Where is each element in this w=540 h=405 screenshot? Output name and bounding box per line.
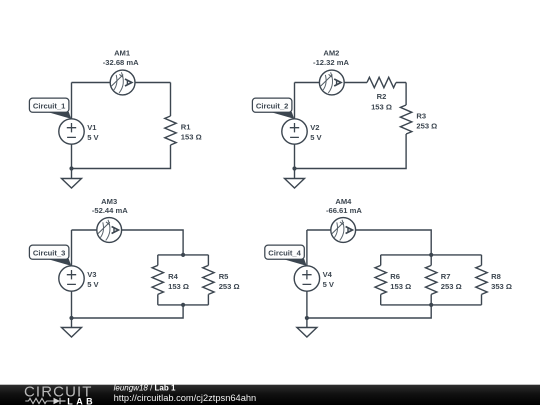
svg-text:253 Ω: 253 Ω: [219, 282, 240, 291]
svg-text:-66.61 mA: -66.61 mA: [326, 206, 362, 215]
svg-text:R6: R6: [390, 272, 400, 281]
svg-text:R1: R1: [181, 122, 191, 131]
wire circuit1 loop: [72, 83, 171, 169]
svg-text:R5: R5: [219, 272, 229, 281]
wire R4 R5 stubs: [158, 255, 209, 305]
ammeter AM1 symbol: [110, 70, 135, 95]
node junction circuit1: [69, 166, 73, 170]
svg-text:V2: V2: [310, 123, 319, 132]
svg-text:V1: V1: [87, 123, 97, 132]
voltage source V3 symbol: [59, 266, 84, 291]
resistor R1: [165, 116, 176, 145]
resistor R2: [367, 77, 396, 87]
svg-text:AM3: AM3: [101, 197, 117, 206]
svg-text:AM2: AM2: [323, 48, 339, 57]
svg-text:5 V: 5 V: [323, 280, 335, 289]
svg-text:253 Ω: 253 Ω: [441, 282, 462, 291]
svg-text:R8: R8: [491, 272, 501, 281]
svg-text:Circuit_1: Circuit_1: [33, 102, 66, 111]
svg-text:V4: V4: [323, 270, 333, 279]
node junction circuit4 ground: [305, 316, 309, 320]
voltage source V1 symbol: [59, 119, 84, 144]
svg-text:Circuit_3: Circuit_3: [33, 249, 66, 258]
ground circuit2: [285, 169, 305, 189]
resistor R3: [400, 105, 411, 134]
ammeter AM4 symbol: [331, 218, 356, 243]
svg-text:-32.68 mA: -32.68 mA: [103, 58, 139, 67]
svg-text:leungw18 / Lab 1: leungw18 / Lab 1: [114, 383, 176, 392]
node junction circuit3 bottom: [181, 303, 185, 307]
svg-text:Circuit_2: Circuit_2: [256, 102, 289, 111]
svg-text:AM1: AM1: [114, 48, 131, 57]
resistor R4: [152, 265, 163, 294]
annotation bubble Circuit_3: [29, 245, 71, 266]
annotation bubble Circuit_1: [29, 98, 71, 119]
svg-text:-12.32 mA: -12.32 mA: [313, 58, 349, 67]
svg-text:R3: R3: [416, 111, 426, 120]
annotation bubble Circuit_4: [265, 245, 307, 266]
svg-text:R2: R2: [377, 92, 387, 101]
svg-text:-52.44 mA: -52.44 mA: [92, 206, 128, 215]
ground circuit3: [62, 318, 82, 338]
voltage source V2 symbol: [282, 119, 307, 144]
svg-text:153 Ω: 153 Ω: [168, 282, 189, 291]
svg-text:R4: R4: [168, 272, 178, 281]
node junction circuit3 ground: [69, 316, 73, 320]
resistor R6: [375, 265, 386, 294]
wire circuit2 loop: [295, 83, 407, 169]
resistor R8: [476, 265, 487, 294]
wire circuit3 loop: [72, 230, 209, 318]
ammeter AM3 symbol: [97, 218, 122, 243]
resistor R7: [426, 265, 437, 294]
node junction circuit4 top: [429, 253, 433, 257]
resistor R5: [203, 265, 214, 294]
logo resistor zigzag: [25, 398, 53, 403]
ground circuit1: [62, 169, 82, 189]
svg-text:5 V: 5 V: [310, 133, 322, 142]
svg-text:5 V: 5 V: [87, 133, 99, 142]
wire circuit4 loop: [307, 230, 482, 318]
svg-text:253 Ω: 253 Ω: [416, 122, 437, 131]
voltage source V4 symbol: [294, 266, 319, 291]
svg-text:R7: R7: [441, 272, 451, 281]
svg-text:http://circuitlab.com/cj2ztpsn: http://circuitlab.com/cj2ztpsn64ahn: [114, 393, 257, 403]
svg-text:153 Ω: 153 Ω: [181, 133, 202, 142]
node junction circuit4 bottom: [429, 303, 433, 307]
svg-text:V3: V3: [87, 270, 96, 279]
svg-text:Circuit_4: Circuit_4: [268, 249, 301, 258]
ground circuit4: [297, 318, 317, 338]
logo diode: [54, 398, 61, 405]
svg-text:153 Ω: 153 Ω: [390, 282, 411, 291]
svg-text:5 V: 5 V: [87, 280, 99, 289]
wire R6 R7 R8 stubs: [381, 255, 482, 305]
svg-text:153 Ω: 153 Ω: [371, 102, 392, 111]
svg-text:AM4: AM4: [335, 197, 352, 206]
svg-text:353 Ω: 353 Ω: [491, 282, 512, 291]
svg-text:LAB: LAB: [67, 396, 96, 405]
ammeter AM2 symbol: [319, 70, 344, 95]
node junction circuit3 top: [181, 253, 185, 257]
annotation bubble Circuit_2: [252, 98, 294, 119]
node junction circuit2: [292, 166, 296, 170]
